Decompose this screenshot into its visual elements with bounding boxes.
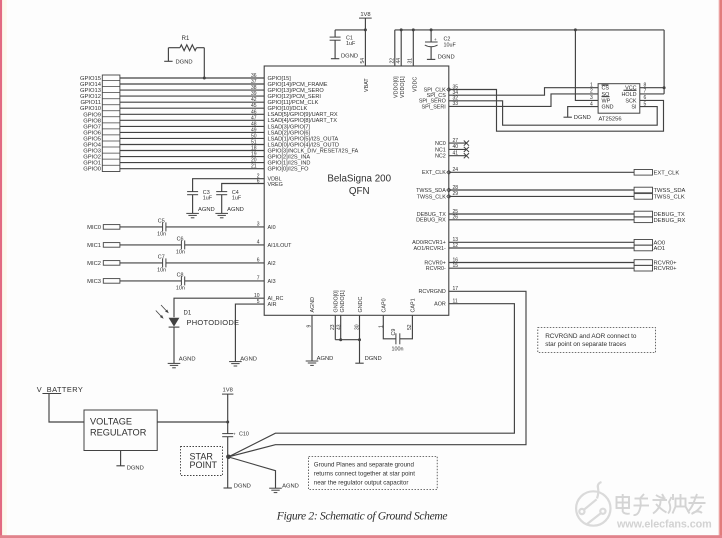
- svg-text:LSAD[1]/GPIO[5]/I2S_OUTA: LSAD[1]/GPIO[5]/I2S_OUTA: [268, 136, 339, 142]
- svg-text:AGND: AGND: [198, 207, 215, 213]
- capacitor C2: [430, 30, 432, 42]
- wire EXT_CLK net: [449, 171, 634, 173]
- svg-text:GPIO14: GPIO14: [80, 82, 102, 88]
- svg-text:REGULATOR: REGULATOR: [90, 428, 147, 438]
- svg-text:1uF: 1uF: [346, 41, 356, 47]
- connector TWSS_CLK: [634, 194, 652, 200]
- wire GPIO6 net: [120, 131, 264, 133]
- svg-text:SPI_SERI: SPI_SERI: [422, 104, 446, 110]
- svg-text:10uF: 10uF: [444, 42, 457, 48]
- connector EXT_CLK: [634, 170, 652, 176]
- svg-text:GPIO1: GPIO1: [83, 161, 101, 167]
- svg-text:GPIO3: GPIO3: [83, 149, 101, 155]
- svg-text:Ground Planes and separate gro: Ground Planes and separate ground: [314, 461, 415, 468]
- svg-text:TWSS_SDA: TWSS_SDA: [654, 188, 686, 194]
- svg-text:VOLTAGE: VOLTAGE: [90, 417, 132, 427]
- svg-text:DGND: DGND: [365, 356, 382, 362]
- svg-text:18: 18: [251, 146, 257, 152]
- node VDD rail: [395, 29, 664, 31]
- wire SPI_CLK to EEPROM SCK: [449, 90, 664, 132]
- svg-text:EXT_CLK: EXT_CLK: [654, 170, 680, 176]
- wire C6 to AI1/LOUT: [185, 244, 265, 246]
- svg-text:AI3: AI3: [268, 279, 276, 285]
- wire GPIO12 net: [120, 95, 264, 97]
- svg-text:HOLD: HOLD: [622, 92, 637, 98]
- svg-text:44: 44: [396, 58, 402, 64]
- svg-text:GPIO[0]/I2S_FO: GPIO[0]/I2S_FO: [268, 167, 310, 173]
- svg-text:RCVRGND: RCVRGND: [419, 289, 446, 295]
- BelaSigna 200 QFN chip U1 body: [264, 66, 449, 315]
- ground AGND at photodiode D1: [168, 362, 181, 364]
- wire GPIO10 net: [120, 107, 264, 109]
- svg-text:6: 6: [644, 95, 647, 101]
- ground DGND at R1: [167, 48, 169, 62]
- node 1V8 rail: [335, 29, 365, 31]
- resistor R1: [180, 45, 197, 51]
- ground AGND at AIR: [229, 361, 242, 363]
- wire DEBUG_TX net: [449, 213, 634, 215]
- ground AGND at pin 9: [306, 360, 319, 362]
- capacitor C7: [162, 258, 164, 267]
- svg-text:4: 4: [257, 240, 260, 246]
- wire MIC3 to C8: [120, 280, 181, 282]
- svg-text:DGND: DGND: [234, 483, 251, 489]
- svg-text:near the regulator output capa: near the regulator output capacitor: [314, 480, 409, 487]
- wire MIC2 to C7: [120, 262, 163, 264]
- pink page border bottom: [0, 535, 722, 538]
- svg-text:AI1/LOUT: AI1/LOUT: [268, 243, 293, 249]
- ground DGND at C2: [427, 58, 435, 60]
- svg-text:DGND: DGND: [341, 54, 358, 60]
- svg-text:+: +: [434, 37, 437, 42]
- wire VCC to VDD rail: [640, 87, 664, 89]
- svg-text:GPIO8: GPIO8: [83, 118, 101, 124]
- svg-text:LSAD[4]/GPIO[8]/UART_TX: LSAD[4]/GPIO[8]/UART_TX: [268, 118, 338, 124]
- svg-text:D1: D1: [184, 310, 192, 316]
- svg-text:GPIO12: GPIO12: [80, 94, 101, 100]
- svg-text:AGND: AGND: [310, 297, 316, 313]
- svg-text:3: 3: [257, 222, 260, 228]
- wire GPIO8 net: [120, 119, 264, 121]
- svg-text:AI0: AI0: [268, 225, 276, 231]
- wire GPIO14 net: [120, 83, 264, 85]
- wire C7 to AI2: [166, 262, 264, 264]
- svg-text:TWSS_CLK: TWSS_CLK: [654, 194, 685, 200]
- wire VDBL to C3: [193, 179, 265, 192]
- svg-text:returns connect together at st: returns connect together at star point: [314, 471, 415, 478]
- svg-text:C10: C10: [239, 431, 249, 437]
- wire 1V8 to VBAT: [364, 18, 366, 66]
- svg-text:54: 54: [360, 58, 366, 64]
- svg-text:47: 47: [251, 115, 257, 121]
- wire MIC1 to C6: [120, 244, 181, 246]
- svg-text:CAP0: CAP0: [382, 298, 388, 312]
- svg-text:www.elecfans.com: www.elecfans.com: [616, 519, 712, 531]
- wire GPIO3 net: [120, 150, 264, 152]
- wire regulator output to 1V8 node: [157, 421, 228, 423]
- svg-text:45: 45: [251, 103, 257, 109]
- EEPROM U2 AT25256 body: [598, 84, 640, 114]
- ground DGND at EEPROM GND: [568, 107, 598, 118]
- svg-text:C6: C6: [177, 237, 184, 243]
- wire GPIO13 net: [120, 89, 264, 91]
- svg-text:GNDO[1]: GNDO[1]: [340, 290, 346, 313]
- svg-text:GPIO0: GPIO0: [83, 167, 101, 173]
- svg-text:VREG: VREG: [268, 182, 283, 188]
- wire DEBUG_RX net: [449, 219, 634, 221]
- wire SPI_SERI to EEPROM SO: [449, 94, 598, 107]
- capacitor C9: [395, 333, 397, 344]
- svg-text:C8: C8: [177, 273, 184, 279]
- connector AO1: [634, 245, 652, 251]
- ground DGND at C1: [331, 58, 339, 60]
- svg-text:TWSS_CLK: TWSS_CLK: [417, 194, 446, 200]
- wire WP pull-up to VDD rail: [575, 30, 598, 101]
- svg-text:MIC0: MIC0: [87, 225, 101, 231]
- svg-text:1V8: 1V8: [360, 12, 370, 18]
- note box RCVRGND and AOR: [538, 328, 656, 353]
- wire MIC0 to C5: [120, 226, 163, 228]
- svg-text:DGND: DGND: [176, 59, 193, 65]
- svg-text:37: 37: [251, 79, 257, 85]
- svg-text:C5: C5: [158, 219, 165, 225]
- svg-text:GPIO[1]/I2S_IND: GPIO[1]/I2S_IND: [268, 161, 311, 167]
- svg-text:1V8: 1V8: [223, 387, 233, 393]
- wire AIR to AGND: [235, 304, 264, 362]
- wire AO0/RCVR1+ net: [449, 241, 634, 243]
- svg-text:43: 43: [336, 324, 342, 330]
- svg-text:100n: 100n: [392, 347, 404, 353]
- svg-text:AO1/RCVR1-: AO1/RCVR1-: [413, 246, 446, 252]
- svg-text:POINT: POINT: [190, 460, 218, 470]
- wire V_BATTERY to regulator: [49, 394, 84, 423]
- connector DEBUG_RX: [634, 217, 652, 223]
- svg-text:1uF: 1uF: [232, 195, 242, 201]
- svg-text:50: 50: [251, 133, 257, 139]
- pin 31 VDDC: [412, 30, 414, 66]
- wire GPIO7 net: [120, 125, 264, 127]
- svg-text:V_BATTERY: V_BATTERY: [37, 385, 84, 394]
- wire TWSS_CLK net: [449, 195, 634, 197]
- svg-text:20: 20: [251, 158, 257, 164]
- wire AOR to star point: [229, 304, 515, 457]
- svg-text:+: +: [233, 431, 236, 436]
- svg-text:RCVR0+: RCVR0+: [654, 266, 678, 272]
- svg-text:VDDO[0]: VDDO[0]: [393, 76, 399, 98]
- svg-text:AGND: AGND: [282, 483, 299, 489]
- svg-text:GPIO[3]/NCLK_DIV_RESET/I2S_FA: GPIO[3]/NCLK_DIV_RESET/I2S_FA: [268, 148, 359, 154]
- svg-text:10n: 10n: [176, 250, 185, 256]
- svg-text:BelaSigna 200: BelaSigna 200: [327, 174, 391, 185]
- svg-text:31: 31: [407, 58, 413, 64]
- ground DGND at star point: [224, 487, 232, 489]
- svg-text:DEBUG_RX: DEBUG_RX: [654, 218, 686, 224]
- svg-text:R1: R1: [182, 36, 190, 42]
- wire R1 to GPIO15: [203, 48, 205, 78]
- svg-text:AO1: AO1: [654, 246, 666, 252]
- svg-text:AT25256: AT25256: [599, 116, 622, 122]
- capacitor C4: [216, 191, 227, 193]
- svg-text:10n: 10n: [176, 286, 185, 292]
- ground AGND at C4: [215, 212, 228, 214]
- wire C5 to AI0: [166, 226, 264, 228]
- svg-text:5: 5: [644, 101, 647, 107]
- STAR POINT label box: [181, 447, 223, 476]
- wire GPIO4 net: [120, 144, 264, 146]
- wire AI_RC to photodiode D1: [174, 298, 264, 317]
- svg-text:AGND: AGND: [240, 356, 257, 362]
- junction R1-GPIO15: [203, 77, 206, 80]
- capacitor C5: [162, 222, 164, 231]
- photodiode D1: [169, 318, 180, 327]
- svg-text:CS: CS: [602, 86, 610, 92]
- capacitor C6: [180, 240, 182, 249]
- svg-text:MIC1: MIC1: [87, 243, 101, 249]
- capacitor C3: [187, 191, 198, 193]
- svg-text:NC1: NC1: [435, 147, 446, 153]
- wire C8 to AI3: [185, 280, 265, 282]
- wire GPIO5 net: [120, 137, 264, 139]
- svg-text:22: 22: [389, 58, 395, 64]
- capacitor C8: [180, 276, 182, 285]
- ground AGND at star point: [269, 487, 282, 489]
- svg-text:10n: 10n: [157, 232, 166, 238]
- wire SPI_CS to EEPROM CS: [449, 88, 598, 96]
- svg-text:RCVR0-: RCVR0-: [426, 266, 446, 272]
- capacitor C1: [334, 30, 336, 37]
- svg-text:AOR: AOR: [434, 302, 446, 308]
- wire GPIO11 net: [120, 101, 264, 103]
- svg-text:C7: C7: [158, 255, 165, 261]
- watermark chinese characters: [617, 494, 706, 515]
- voltage regulator VR1: [84, 410, 157, 451]
- svg-text:GPIO[10]/DCLK: GPIO[10]/DCLK: [268, 106, 308, 112]
- svg-text:EXT_CLK: EXT_CLK: [422, 170, 446, 176]
- svg-text:6: 6: [257, 258, 260, 264]
- svg-text:MIC2: MIC2: [87, 261, 101, 267]
- wire ground bus: [335, 339, 359, 341]
- svg-text:GPIO[14]/PCM_FRAME: GPIO[14]/PCM_FRAME: [268, 82, 328, 88]
- svg-text:1: 1: [590, 83, 593, 89]
- svg-text:WP: WP: [602, 98, 611, 104]
- wire GPIO9 net: [120, 113, 264, 115]
- svg-text:21: 21: [251, 164, 257, 170]
- connector RCVR0+: [634, 265, 652, 271]
- svg-text:1uF: 1uF: [203, 195, 213, 201]
- svg-text:PHOTODIODE: PHOTODIODE: [187, 318, 240, 327]
- svg-text:DEBUG_RX: DEBUG_RX: [416, 218, 446, 224]
- svg-text:AI2: AI2: [268, 261, 276, 267]
- wire GPIO2 net: [120, 156, 264, 158]
- wire RCVRGND to star point: [229, 291, 526, 457]
- svg-text:39: 39: [251, 91, 257, 97]
- svg-text:SI: SI: [631, 105, 636, 111]
- svg-text:QFN: QFN: [349, 186, 370, 197]
- svg-text:DGND: DGND: [127, 465, 144, 471]
- pink page border left: [0, 0, 2, 538]
- svg-text:CAP1: CAP1: [411, 298, 417, 312]
- svg-text:star point on separate traces: star point on separate traces: [545, 341, 626, 348]
- svg-text:VBAT: VBAT: [364, 78, 370, 92]
- svg-text:Figure 2: Schematic of Ground: Figure 2: Schematic of Ground Scheme: [276, 510, 448, 523]
- ground DGND at GNDC: [355, 362, 363, 364]
- watermark elecfans logo: [576, 482, 610, 526]
- svg-text:C9: C9: [391, 329, 397, 336]
- wire AO1/RCVR1- net: [449, 247, 634, 249]
- svg-text:GPIO10: GPIO10: [80, 106, 101, 112]
- wire GPIO15 net: [120, 77, 264, 79]
- svg-text:NC2: NC2: [435, 154, 446, 160]
- connector TWSS_SDA: [634, 187, 652, 193]
- wire star point to AGND: [229, 457, 276, 488]
- svg-text:NC0: NC0: [435, 141, 446, 147]
- svg-text:SCK: SCK: [625, 98, 636, 104]
- svg-text:7: 7: [257, 276, 260, 282]
- note box ground planes: [309, 456, 438, 489]
- wire HOLD to VDD rail: [640, 93, 664, 95]
- wire VREG to C4: [222, 184, 265, 192]
- pin 22 VDDO[0]: [394, 30, 396, 66]
- wire SPI_SERO to EEPROM SI: [449, 101, 657, 125]
- svg-text:VDDC: VDDC: [412, 77, 418, 92]
- svg-text:VDDO[1]: VDDO[1]: [400, 76, 406, 98]
- wire GPIO1 net: [120, 162, 264, 164]
- pink page border right: [719, 0, 720, 538]
- svg-text:TWSS_SDA: TWSS_SDA: [416, 188, 446, 194]
- ground DGND at regulator: [120, 451, 122, 466]
- wire GPIO0 net: [120, 168, 264, 170]
- star point node: [226, 455, 231, 460]
- svg-text:MIC3: MIC3: [87, 279, 101, 285]
- wire RCVR0+ net: [449, 262, 634, 264]
- capacitor C10: [222, 433, 233, 435]
- svg-text:AIR: AIR: [268, 302, 277, 308]
- connector RCVR0+: [634, 260, 652, 266]
- svg-text:RCVRGND and AOR connect to: RCVRGND and AOR connect to: [545, 333, 637, 340]
- svg-text:AGND: AGND: [227, 207, 244, 213]
- svg-text:AGND: AGND: [317, 356, 334, 362]
- svg-text:GPIO5: GPIO5: [83, 136, 101, 142]
- svg-text:DGND: DGND: [574, 115, 591, 121]
- wire 1V8 to star point: [227, 394, 229, 434]
- connector DEBUG_TX: [634, 211, 652, 217]
- svg-text:AGND: AGND: [179, 356, 196, 362]
- pin 44 VDDO[1]: [400, 30, 402, 66]
- svg-text:GND: GND: [602, 105, 614, 111]
- svg-text:DGND: DGND: [438, 54, 455, 60]
- svg-text:2: 2: [590, 89, 593, 95]
- ground AGND at C3: [186, 212, 199, 214]
- wire TWSS_SDA net: [449, 189, 634, 191]
- wire RCVR0- net: [449, 267, 634, 269]
- svg-text:GNDC: GNDC: [358, 297, 364, 313]
- svg-text:GPIO[12]/PCM_SERI: GPIO[12]/PCM_SERI: [268, 94, 322, 100]
- GPIO header connector J1: [102, 75, 120, 172]
- connector AO0: [634, 240, 652, 246]
- svg-text:10n: 10n: [157, 268, 166, 274]
- svg-text:GNDO[0]: GNDO[0]: [334, 290, 340, 313]
